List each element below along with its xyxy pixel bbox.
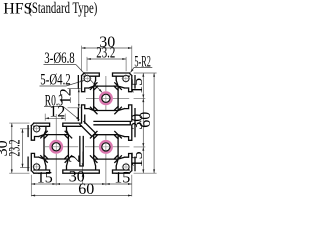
callout leader lines and underlines [40, 65, 153, 121]
svg-text:23.2: 23.2 [96, 45, 115, 62]
center hole 6.8 dia (left cell) [49, 140, 63, 154]
dimension lines with arrows [12, 48, 154, 196]
wall groove on right face [131, 122, 133, 125]
center hole 6.8 dia (right cell) [99, 140, 113, 154]
corner hole 4.2 dia (base left-top) [33, 126, 39, 132]
svg-text:60: 60 [137, 112, 154, 128]
svg-text:60: 60 [78, 181, 94, 198]
svg-text:15: 15 [114, 170, 130, 187]
svg-text:15: 15 [129, 78, 146, 94]
arrowheads [11, 47, 155, 197]
corner hole 4.2 dia (stem top-right) [123, 75, 129, 81]
svg-text:2: 2 [66, 155, 83, 163]
svg-text:23.2: 23.2 [7, 140, 24, 157]
svg-text:(Standard Type): (Standard Type) [28, 0, 97, 17]
svg-text:12: 12 [49, 104, 65, 121]
svg-text:5-R2: 5-R2 [134, 53, 151, 70]
corner hole 4.2 dia (base bottom-left) [33, 164, 39, 170]
svg-text:3-Ø6.8: 3-Ø6.8 [44, 50, 74, 67]
center hole 6.8 dia (top cell) [99, 91, 113, 105]
corner hole 4.2 dia (stem top-left) [84, 75, 90, 81]
svg-text:5-Ø4.2: 5-Ø4.2 [40, 72, 70, 89]
centerlines and dimension extension lines [9, 46, 156, 197]
svg-text:15: 15 [129, 151, 146, 167]
corner hole 4.2 dia (base bottom-right) [123, 164, 129, 170]
svg-text:15: 15 [37, 170, 53, 187]
extrusion profile cross-section outline (L-shaped 60x60, slots, cavities, webs) [28, 73, 135, 173]
svg-text:12: 12 [57, 88, 74, 104]
